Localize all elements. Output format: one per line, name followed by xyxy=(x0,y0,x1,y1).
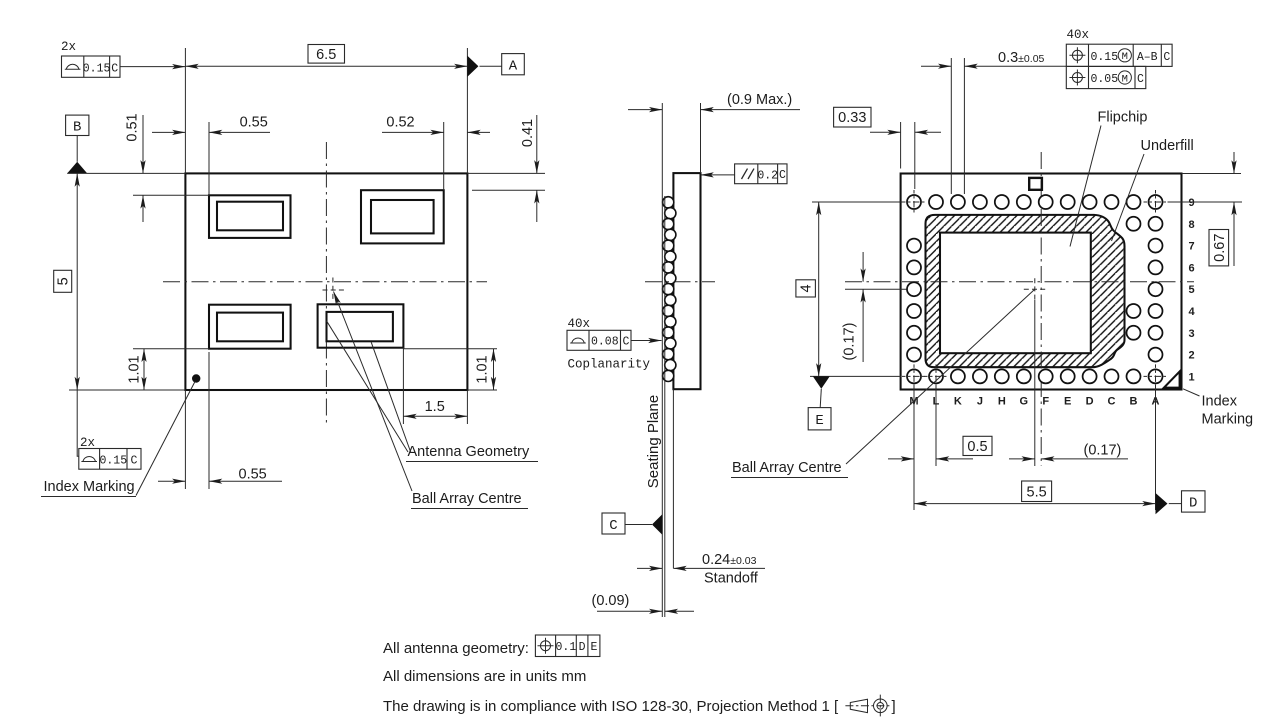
package outline bottom view xyxy=(901,174,1182,390)
note: units xyxy=(383,668,586,685)
svg-text:Index Marking: Index Marking xyxy=(44,479,135,495)
antenna geometry label xyxy=(327,321,539,462)
svg-text:8: 8 xyxy=(1188,219,1194,231)
row numbers 1-9 xyxy=(1188,197,1195,383)
svg-text:0.51: 0.51 xyxy=(125,113,141,141)
svg-text:0.55: 0.55 xyxy=(239,467,267,483)
package outline top view xyxy=(185,173,467,390)
svg-text:2x: 2x xyxy=(80,436,95,450)
svg-text:C: C xyxy=(609,518,617,534)
column letters M-A xyxy=(909,396,1159,408)
svg-text:(0.17): (0.17) xyxy=(1084,443,1122,459)
svg-text:0.05: 0.05 xyxy=(1091,73,1119,86)
svg-text:Seating Plane: Seating Plane xyxy=(645,395,662,488)
svg-text:E: E xyxy=(815,413,823,429)
svg-text:K: K xyxy=(954,396,962,408)
svg-text:C: C xyxy=(131,455,138,468)
dimension 0.55 (bottom) xyxy=(158,352,282,489)
svg-text:5: 5 xyxy=(1188,284,1194,296)
svg-text:Marking: Marking xyxy=(1202,412,1254,428)
svg-text:2: 2 xyxy=(1188,350,1194,362)
svg-text:Ball Array Centre: Ball Array Centre xyxy=(412,491,522,507)
dimension 4 (boxed, rotated) xyxy=(796,202,902,376)
svg-text:All antenna geometry:: All antenna geometry: xyxy=(383,640,529,657)
index marking label (bottom view) xyxy=(1183,389,1253,428)
svg-text:D: D xyxy=(1086,396,1094,408)
dimension 0.52 xyxy=(382,115,490,191)
svg-text:0.15: 0.15 xyxy=(83,62,111,75)
svg-text:2x: 2x xyxy=(61,40,76,54)
horizontal centre line (bottom view) xyxy=(845,281,1194,283)
dimension 1.5 xyxy=(403,348,467,424)
antenna geometry top-right outer xyxy=(361,190,444,243)
parallelism frame 0.2 C xyxy=(701,164,788,184)
dimension 5 (boxed, rotated) xyxy=(54,173,77,390)
dimension 6.5 with extension lines xyxy=(185,45,467,174)
svg-text:C: C xyxy=(1108,396,1116,408)
svg-text:B: B xyxy=(1130,396,1138,408)
dimension 1.01 (right) xyxy=(403,349,497,390)
svg-text:7: 7 xyxy=(1188,241,1194,253)
svg-text:All dimensions are in units mm: All dimensions are in units mm xyxy=(383,668,586,685)
svg-text:Ball Array Centre: Ball Array Centre xyxy=(732,460,842,476)
svg-text:4: 4 xyxy=(799,284,815,292)
svg-text:]: ] xyxy=(892,698,896,715)
side view solder balls xyxy=(663,197,676,382)
note: ISO compliance with projection symbol xyxy=(383,695,896,717)
svg-text:C: C xyxy=(622,335,629,348)
svg-text:(0.09): (0.09) xyxy=(592,593,630,609)
flipchip outline xyxy=(940,233,1091,354)
vertical centre line xyxy=(325,142,327,424)
svg-text:J: J xyxy=(977,396,983,408)
datum E xyxy=(808,376,831,430)
svg-text:A–B: A–B xyxy=(1137,51,1158,64)
svg-text:9: 9 xyxy=(1188,197,1194,209)
svg-text:M: M xyxy=(1122,73,1128,85)
antenna geometry bottom-centre inner xyxy=(327,312,393,341)
svg-text:E: E xyxy=(590,641,597,654)
dimension (0.17) left (rotated) xyxy=(842,252,864,362)
dimension 0.67 (boxed, rotated) xyxy=(1168,152,1243,266)
vertical centre line (bottom view) xyxy=(1040,152,1042,466)
svg-text:M: M xyxy=(1122,51,1128,63)
svg-text:4: 4 xyxy=(1188,306,1195,318)
svg-text:0.2: 0.2 xyxy=(757,169,778,182)
svg-text:Underfill: Underfill xyxy=(1141,138,1194,154)
svg-text:E: E xyxy=(1064,396,1071,408)
svg-text:Coplanarity: Coplanarity xyxy=(568,358,651,372)
svg-text:0.15: 0.15 xyxy=(99,455,127,468)
underfill hatched region xyxy=(926,215,1125,367)
svg-text:Antenna Geometry: Antenna Geometry xyxy=(408,444,530,460)
svg-text:Index: Index xyxy=(1202,394,1238,410)
ball array centre cross (top view, dashed) xyxy=(323,278,345,302)
datum A xyxy=(467,54,524,77)
dimension (0.09) xyxy=(592,593,695,611)
index marking label (left view) xyxy=(41,382,195,497)
ball array centre extension lines xyxy=(845,289,1035,466)
svg-text:0.24±0.03: 0.24±0.03 xyxy=(702,552,757,568)
svg-text:6.5: 6.5 xyxy=(316,47,336,63)
svg-text:40x: 40x xyxy=(1067,28,1090,42)
dimension 0.55 (top) xyxy=(152,115,270,196)
svg-text:0.08: 0.08 xyxy=(591,335,619,348)
dimension (0.9 Max.) xyxy=(628,92,800,173)
dimension 0.3 ball diameter xyxy=(921,50,1066,194)
svg-text:C: C xyxy=(1137,73,1144,86)
dimension 0.5 xyxy=(888,386,992,466)
index marking dot xyxy=(192,374,200,382)
note: all antenna geometry position frame xyxy=(383,635,600,657)
A1 orientation square marker xyxy=(1029,178,1042,190)
dimension 5.5 and datum D xyxy=(914,386,1205,514)
dimension 1.01 (left) xyxy=(127,349,210,390)
svg-text:0.5: 0.5 xyxy=(967,439,987,455)
package body side view xyxy=(673,173,700,389)
dimension 0.51 xyxy=(125,113,210,222)
svg-text:B: B xyxy=(73,119,81,135)
dimension 0.24 standoff xyxy=(637,389,765,568)
svg-text:G: G xyxy=(1020,396,1029,408)
svg-text:0.55: 0.55 xyxy=(240,115,268,131)
40x coplanarity frame xyxy=(567,317,662,350)
svg-text:3: 3 xyxy=(1188,328,1194,340)
svg-text:0.67: 0.67 xyxy=(1212,234,1228,262)
horizontal centre line xyxy=(163,281,487,283)
standoff label xyxy=(704,571,759,587)
datum C xyxy=(602,513,662,535)
datum ball crosshairs xyxy=(902,190,1168,388)
dimension 0.33 xyxy=(834,107,941,189)
seating plane line xyxy=(661,103,663,617)
antenna geometry top-right inner xyxy=(371,200,434,233)
svg-text:0.41: 0.41 xyxy=(520,119,536,147)
seating plane label (rotated) xyxy=(645,395,662,488)
package-bottom extension line left xyxy=(69,389,185,391)
svg-text:The drawing is in compliance w: The drawing is in compliance with ISO 12… xyxy=(383,698,839,715)
dimension 0.41 xyxy=(467,115,545,222)
index marking triangle (bottom view) xyxy=(1164,372,1180,388)
antenna geometry bottom-left outer xyxy=(209,305,291,349)
svg-text:1: 1 xyxy=(1188,371,1194,383)
svg-text:1.01: 1.01 xyxy=(475,355,491,383)
antenna geometry top-left outer xyxy=(209,195,291,238)
antenna geometry top-left inner xyxy=(217,202,283,231)
svg-text:(0.17): (0.17) xyxy=(842,323,858,361)
svg-text:6: 6 xyxy=(1188,262,1194,274)
svg-text:C: C xyxy=(779,169,786,182)
side view centre line xyxy=(645,281,715,283)
svg-text:5: 5 xyxy=(56,277,72,285)
svg-text:1.01: 1.01 xyxy=(127,355,143,383)
svg-text:C: C xyxy=(111,62,118,75)
svg-text:0.33: 0.33 xyxy=(838,110,866,126)
svg-text:40x: 40x xyxy=(568,317,591,331)
dimension (0.17) bottom xyxy=(1009,443,1128,459)
svg-text:Standoff: Standoff xyxy=(704,571,759,587)
solder balls grid xyxy=(907,195,1163,383)
svg-text:(0.9 Max.): (0.9 Max.) xyxy=(727,92,792,108)
ball tangent line xyxy=(664,196,666,617)
svg-text:D: D xyxy=(579,641,586,654)
ball array centre label (bottom view) xyxy=(731,289,1035,477)
svg-text:D: D xyxy=(1189,496,1197,512)
svg-text:1.5: 1.5 xyxy=(425,399,445,415)
2x surface profile frame (bottom-left) xyxy=(77,390,141,469)
2x surface profile frame (top-left) xyxy=(61,40,185,77)
package-top extension line to datum B xyxy=(67,172,185,174)
datum B xyxy=(66,115,89,173)
flipchip label xyxy=(1070,110,1147,247)
antenna geometry bottom-left inner xyxy=(217,313,283,342)
svg-text:A: A xyxy=(509,58,518,74)
underfill label xyxy=(1112,138,1194,241)
svg-text:0.52: 0.52 xyxy=(386,115,414,131)
svg-text:H: H xyxy=(998,396,1006,408)
coplanarity label xyxy=(568,358,651,372)
svg-text:5.5: 5.5 xyxy=(1027,485,1047,501)
ball array centre cross (bottom view) xyxy=(1024,278,1046,300)
svg-text:0.1: 0.1 xyxy=(556,641,577,654)
svg-text:C: C xyxy=(1163,51,1170,64)
svg-text:0.15: 0.15 xyxy=(1091,51,1119,64)
ball array centre label (left view) xyxy=(334,292,529,509)
svg-text:0.3±0.05: 0.3±0.05 xyxy=(998,50,1045,66)
40x position tolerance frames xyxy=(1066,28,1172,89)
svg-text:F: F xyxy=(1042,396,1049,408)
antenna geometry bottom-centre outer xyxy=(318,304,404,347)
svg-text:Flipchip: Flipchip xyxy=(1098,110,1148,126)
